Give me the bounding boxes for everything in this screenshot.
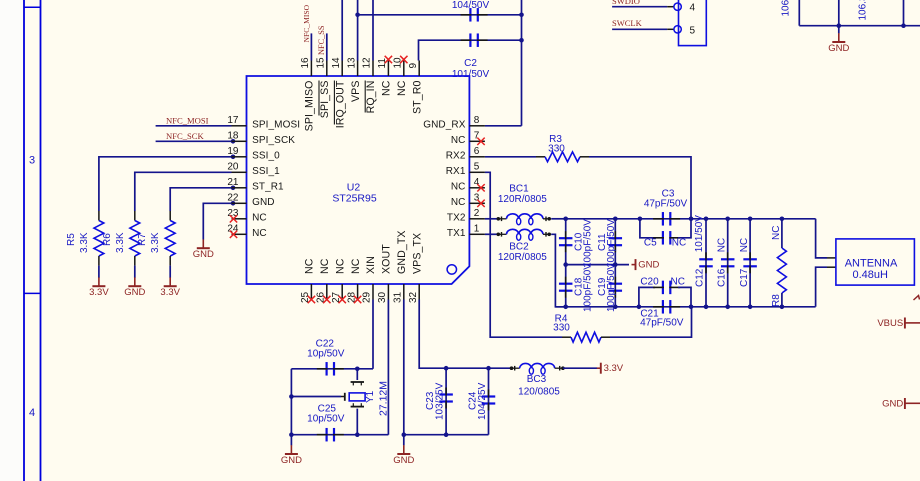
svg-text:NC: NC <box>252 212 267 223</box>
svg-text:3.3V: 3.3V <box>89 287 109 298</box>
U2 pin 31 (GND_TX) stub <box>403 284 405 300</box>
svg-text:10: 10 <box>393 57 404 69</box>
power GND under pin 31 <box>403 445 405 454</box>
wire pin 6 RX2 to R3 <box>485 156 536 158</box>
svg-text:3.3K: 3.3K <box>79 232 90 253</box>
no-connect X on pin 4 <box>477 184 484 191</box>
svg-text:SWDIO: SWDIO <box>612 0 640 6</box>
wire pin 8 to riser <box>485 125 522 127</box>
connector box P? (SWD) <box>679 0 707 46</box>
U2 pin 9 (ST_R0) stub <box>418 61 420 77</box>
svg-text:18: 18 <box>227 131 239 142</box>
U2 pin 2 (TX2) stub <box>469 218 485 220</box>
U2 pin 7 (NC) stub <box>469 140 485 142</box>
svg-text:GND_RX: GND_RX <box>423 119 466 130</box>
wire R4 to matching node <box>601 336 610 338</box>
ferrite bead BC2 <box>497 233 501 237</box>
svg-text:21: 21 <box>227 177 239 188</box>
svg-text:NC: NC <box>451 135 466 146</box>
svg-text:330: 330 <box>553 323 570 334</box>
junction crystal top node <box>355 367 360 372</box>
U2 pin 11 (NC) stub <box>387 61 389 77</box>
no-connect X on pin 24 <box>230 231 237 238</box>
U2 pin 3 (NC) stub <box>469 202 485 204</box>
svg-text:8: 8 <box>474 115 480 126</box>
capacitor C12 <box>705 219 707 307</box>
svg-text:C5: C5 <box>644 238 657 249</box>
svg-text:SWCLK: SWCLK <box>612 18 643 28</box>
wire pin 20 to R6 <box>135 172 232 211</box>
junction C23 top <box>444 366 449 371</box>
U2 pin 25 (NC) stub <box>310 284 312 300</box>
svg-text:22: 22 <box>227 193 239 204</box>
svg-text:47pF/50V: 47pF/50V <box>644 199 688 210</box>
svg-text:NC: NC <box>304 258 316 274</box>
wire bottom rail to antenna pin <box>816 267 827 307</box>
junction C11 middle <box>613 262 618 267</box>
resistor R7 <box>165 221 175 257</box>
left rail of crystal circuit <box>290 369 292 446</box>
junction C2 riser <box>519 38 524 43</box>
U2 pin 28 (NC) stub <box>357 284 359 300</box>
svg-text:NC: NC <box>670 277 684 288</box>
wire NFC_SCK to pin 18 <box>156 140 232 142</box>
svg-text:GND: GND <box>124 287 145 298</box>
capacitor lead from above left (value 106) <box>798 0 800 26</box>
capacitor C19 <box>614 265 616 307</box>
capacitor C17 (not fitted) <box>749 219 751 307</box>
wire pin13 junction to C1 to GND_RX riser <box>358 14 522 16</box>
wire pin 29 XIN down <box>372 300 374 369</box>
U2 pin 19 (SSI_0) stub <box>232 156 247 158</box>
wire XOUT bottom row <box>291 434 388 436</box>
svg-text:10p/50V: 10p/50V <box>307 414 345 425</box>
svg-text:RQ_IN: RQ_IN <box>365 81 377 114</box>
decoupling rail wire <box>799 25 920 27</box>
svg-text:NC: NC <box>334 258 346 274</box>
power 3.3V under R7 <box>169 277 171 286</box>
no-connect X on pin 27 <box>339 296 346 303</box>
wire BC2 down to TX1 rail <box>551 234 566 306</box>
TX2 top rail <box>566 218 816 220</box>
U2 pin 30 (XOUT) stub <box>387 284 389 300</box>
svg-text:NC: NC <box>319 258 331 274</box>
wire pin 16 stub up <box>310 33 312 60</box>
svg-text:NC: NC <box>350 258 362 274</box>
junction pin 22 wire end <box>231 201 236 206</box>
junction C1 riser <box>519 13 524 18</box>
svg-text:NC: NC <box>252 228 267 239</box>
wire SWCLK <box>612 28 667 30</box>
U2 pin 22 (GND) stub <box>232 202 247 204</box>
junction C3 left node <box>638 217 643 222</box>
junction pin13 / C1 wire <box>355 13 360 18</box>
wire BC3 to 3.3V <box>563 367 597 369</box>
cropped red mark near antenna <box>914 296 920 301</box>
svg-text:19: 19 <box>227 146 239 157</box>
svg-text:SPI_MOSI: SPI_MOSI <box>252 119 300 130</box>
connector pin 4 circle <box>674 3 681 10</box>
svg-text:NFC_MISO: NFC_MISO <box>302 4 311 42</box>
svg-text:SSI_0: SSI_0 <box>252 150 280 161</box>
junction crystal bottom node <box>355 432 360 437</box>
svg-text:GND: GND <box>281 455 302 466</box>
wire R7 bottom <box>169 256 171 266</box>
svg-text:VPS_TX: VPS_TX <box>411 233 423 274</box>
svg-text:GND: GND <box>393 455 414 466</box>
svg-text:5: 5 <box>690 25 696 36</box>
no-connect X on pin 10 <box>400 56 407 63</box>
capacitor C25 <box>326 428 328 442</box>
junction decoupling rail right <box>901 23 906 28</box>
svg-text:C17: C17 <box>739 268 750 287</box>
svg-text:ST_R1: ST_R1 <box>252 181 284 192</box>
wire SWDIO <box>612 6 667 8</box>
svg-text:106.3V: 106.3V <box>858 0 869 21</box>
U2 pin 13 (VPS) stub <box>357 61 359 77</box>
capacitor C11 <box>614 219 616 265</box>
U2 pin 26 (NC) stub <box>326 284 328 300</box>
svg-text:10p/50V: 10p/50V <box>307 349 345 360</box>
no-connect X on pin 3 <box>477 200 484 207</box>
power GND under crystal rail <box>290 445 292 454</box>
svg-text:C20: C20 <box>640 277 659 288</box>
svg-text:NC: NC <box>396 80 408 96</box>
U2 pin 27 (NC) stub <box>341 284 343 300</box>
svg-text:2: 2 <box>474 208 480 219</box>
junction C24 top <box>486 366 491 371</box>
svg-text:ST25R95: ST25R95 <box>332 193 377 205</box>
U2 pin 16 (SPI_MISO) stub <box>310 61 312 77</box>
svg-text:120R/0805: 120R/0805 <box>498 252 547 263</box>
svg-text:32: 32 <box>408 291 419 303</box>
overline for pin name RQ_IN <box>364 81 366 113</box>
junction pin 18 wire end <box>231 139 236 144</box>
svg-text:NC: NC <box>381 80 393 96</box>
svg-text:GND: GND <box>252 197 275 208</box>
svg-text:NC: NC <box>739 238 750 252</box>
svg-text:103/25V: 103/25V <box>435 382 446 420</box>
no-connect X on pin 11 <box>385 56 392 63</box>
svg-text:104/50V: 104/50V <box>452 0 490 11</box>
U2 pin 4 (NC) stub <box>469 187 485 189</box>
wire pin 19 to R5 <box>99 157 232 211</box>
U2 pin-1 indicator circle <box>447 265 456 274</box>
capacitor C18 <box>565 265 567 307</box>
junction crystal case lead at left rail <box>289 394 294 399</box>
svg-text:XOUT: XOUT <box>381 244 393 274</box>
svg-text:120R/0805: 120R/0805 <box>498 194 547 205</box>
U2 pin 5 (RX1) stub <box>469 171 485 173</box>
svg-text:BC3: BC3 <box>527 374 547 385</box>
junction pin 19 wire end <box>231 155 236 160</box>
junction C10 middle <box>563 262 568 267</box>
svg-text:100pF/50V: 100pF/50V <box>583 263 594 312</box>
capacitor C23 <box>445 368 447 435</box>
junction decoupling rail at GND tap <box>837 23 842 28</box>
svg-text:20: 20 <box>227 162 239 173</box>
svg-text:C2: C2 <box>464 58 477 69</box>
power GND under pin 22 <box>202 239 204 248</box>
capacitor C20 loop (not fitted) <box>639 287 655 306</box>
svg-text:SPI_SCK: SPI_SCK <box>252 135 295 146</box>
capacitor C24 <box>488 368 490 435</box>
svg-text:R6: R6 <box>102 233 113 246</box>
svg-text:NC: NC <box>451 181 466 192</box>
sheet border left inner line <box>40 0 42 481</box>
svg-text:GND: GND <box>882 399 903 410</box>
svg-text:106/6.3V: 106/6.3V <box>781 0 792 17</box>
TX1 bottom rail <box>555 306 815 308</box>
svg-text:R7: R7 <box>137 233 148 246</box>
junction left rail bottom <box>289 432 294 437</box>
svg-text:NC: NC <box>717 238 728 252</box>
wire pin 12 up to sheet edge <box>372 0 374 61</box>
U2 pin 12 (RQ_IN) stub <box>372 61 374 77</box>
svg-text:GND: GND <box>638 259 659 270</box>
U2 pin 10 (NC) stub <box>403 61 405 77</box>
svg-text:12: 12 <box>362 57 373 69</box>
overline for pin name IRQ_OUT <box>333 81 335 125</box>
svg-text:47pF/50V: 47pF/50V <box>640 318 684 329</box>
junction C18 bottom <box>563 305 568 310</box>
svg-text:16: 16 <box>300 57 311 69</box>
capacitor C5 loop (not fitted) <box>640 219 655 238</box>
svg-text:13: 13 <box>346 57 357 69</box>
overline for pin name SPI_SS <box>318 81 320 116</box>
U2 pin 1 (TX1) stub <box>469 233 485 235</box>
junction pin31 and C23/C24 return rail <box>402 432 407 437</box>
power GND on middle rail <box>632 264 636 266</box>
U2 pin 8 (GND_RX) stub <box>469 125 485 127</box>
junction C21 left node <box>637 305 642 310</box>
svg-text:SSI_1: SSI_1 <box>252 166 280 177</box>
svg-text:BC2: BC2 <box>509 242 529 253</box>
resistor R5 <box>94 221 104 257</box>
IC U2 ST25R95 body <box>247 76 470 284</box>
no-connect X on pin 7 <box>477 138 484 145</box>
capacitor C21 in bottom rail <box>662 300 664 314</box>
svg-text:RX2: RX2 <box>446 150 466 161</box>
capacitor C1 <box>469 8 471 21</box>
svg-text:11: 11 <box>377 58 388 69</box>
svg-text:4: 4 <box>29 407 35 419</box>
svg-text:NFC_MOSI: NFC_MOSI <box>166 115 209 125</box>
wire R6 bottom <box>134 256 136 266</box>
capacitor C16 (not fitted) <box>727 219 729 307</box>
svg-text:GND_TX: GND_TX <box>396 230 408 274</box>
svg-text:NC: NC <box>672 238 686 249</box>
svg-text:330: 330 <box>548 144 565 155</box>
junction C3/C5 right node <box>689 217 694 222</box>
svg-text:ST_R0: ST_R0 <box>411 81 423 114</box>
svg-text:3.3K: 3.3K <box>115 232 126 253</box>
wire GND_RX riser pin 8 <box>521 0 523 126</box>
resistor R3 <box>545 152 580 162</box>
U2 pin 14 (IRQ_OUT) stub <box>341 61 343 77</box>
svg-text:104/25V: 104/25V <box>477 382 488 420</box>
sheet margin outside border <box>0 0 24 481</box>
wire pin 15 stub up <box>326 33 328 60</box>
svg-text:NC: NC <box>771 226 782 240</box>
svg-text:6: 6 <box>474 146 480 157</box>
svg-text:3.3V: 3.3V <box>604 363 624 374</box>
junction C11 top <box>613 217 618 222</box>
sheet border zone tick middle <box>24 292 41 294</box>
U2 pin 18 (SPI_SCK) stub <box>232 140 247 142</box>
svg-text:4: 4 <box>690 3 696 14</box>
wire pin 21 to R7 <box>170 188 231 211</box>
junction C10 top <box>563 217 568 222</box>
power 3.3V at BC3 output <box>597 367 601 369</box>
antenna box ANTENNA 0.48uH <box>836 239 915 285</box>
no-connect X on pin 23 <box>230 215 237 222</box>
svg-text:3: 3 <box>29 155 35 167</box>
U2 pin 21 (ST_R1) stub <box>232 187 247 189</box>
svg-text:30: 30 <box>377 291 388 303</box>
wire pin 14 up to sheet edge <box>341 0 343 61</box>
wire pin 32 VPS_TX down and right <box>419 300 510 369</box>
wire BC1 to TX2 rail <box>551 218 566 220</box>
crystal Y1 27.12M <box>356 369 358 380</box>
wire pin 30 XOUT down <box>387 300 389 435</box>
svg-text:9: 9 <box>408 63 419 69</box>
svg-text:NFC_SS: NFC_SS <box>317 25 326 55</box>
svg-text:101/50V: 101/50V <box>452 69 490 80</box>
svg-text:C12: C12 <box>694 268 705 287</box>
wire R3 to matching node <box>580 156 589 158</box>
svg-text:3.3K: 3.3K <box>150 232 161 253</box>
no-connect X on pin 28 <box>354 296 361 303</box>
svg-text:120/0805: 120/0805 <box>518 387 560 398</box>
wire XIN row to crystal and C22 <box>291 368 373 370</box>
U2 pin 20 (SSI_1) stub <box>232 171 247 173</box>
ground symbol on decoupling rail <box>838 26 840 34</box>
U2 pin 29 (XIN) stub <box>372 284 374 300</box>
wire pin 1 TX1 to BC2 <box>485 233 498 235</box>
svg-text:U2: U2 <box>347 181 361 193</box>
svg-text:XIN: XIN <box>365 256 377 274</box>
wire pin 2 TX2 to BC1 <box>485 218 498 220</box>
resistor R6 <box>130 221 140 257</box>
no-connect X on pin 25 <box>308 296 315 303</box>
junction C23 bottom <box>444 432 449 437</box>
svg-text:VBUS: VBUS <box>877 318 903 329</box>
ferrite bead BC1 <box>497 217 501 221</box>
sheet border left outer line <box>23 0 25 481</box>
svg-text:14: 14 <box>331 57 342 69</box>
svg-text:SPI_SS: SPI_SS <box>319 81 331 119</box>
svg-text:NFC_SCK: NFC_SCK <box>166 131 205 141</box>
svg-text:NC: NC <box>451 197 466 208</box>
svg-text:29: 29 <box>362 291 373 303</box>
svg-text:IRQ_OUT: IRQ_OUT <box>334 80 346 128</box>
no-connect X on pin 26 <box>323 296 330 303</box>
capacitor C2 <box>469 33 471 47</box>
U2 pin 15 (SPI_SS) stub <box>326 61 328 77</box>
middle ground rail <box>566 264 629 266</box>
capacitor lead from above right (value 106) <box>838 0 840 26</box>
junction C20/C21 right node <box>689 305 694 310</box>
svg-text:0.48uH: 0.48uH <box>852 269 888 281</box>
svg-text:TX2: TX2 <box>447 212 466 223</box>
svg-text:15: 15 <box>316 57 327 69</box>
wire pin 9 up and right to C2 <box>419 40 522 60</box>
wire pin 5 RX1 down <box>485 172 562 337</box>
capacitor C3 in top rail <box>662 212 664 226</box>
resistor R4 <box>571 332 601 342</box>
power GND under R6 <box>134 277 136 286</box>
svg-text:TX1: TX1 <box>447 228 466 239</box>
svg-text:5: 5 <box>474 162 480 173</box>
wire pin 31 GND_TX down <box>403 300 405 446</box>
U2 pin 6 (RX2) stub <box>469 156 485 158</box>
wire NFC_MOSI to pin 17 <box>156 125 232 127</box>
power 3.3V under R5 <box>98 277 100 286</box>
resistor R8 (not fitted) <box>781 219 783 248</box>
U2 pin 32 (VPS_TX) stub <box>418 284 420 300</box>
junction pin 21 wire end <box>231 186 236 191</box>
svg-text:ANTENNA: ANTENNA <box>845 258 898 270</box>
capacitor C10 <box>565 219 567 265</box>
U2 pin 23 (NC) stub <box>232 218 247 220</box>
svg-text:SPI_MISO: SPI_MISO <box>304 81 316 132</box>
svg-text:R8: R8 <box>771 294 782 307</box>
svg-text:31: 31 <box>393 291 404 303</box>
capacitor lead 106 right column <box>903 0 905 26</box>
ferrite bead BC3 <box>510 366 514 370</box>
svg-text:Y1: Y1 <box>365 390 376 403</box>
svg-text:GND: GND <box>828 43 849 54</box>
svg-text:VPS: VPS <box>350 81 362 103</box>
sheet border zone tick top <box>24 6 41 8</box>
junction C19 bottom <box>613 305 618 310</box>
U2 pin 17 (SPI_MOSI) stub <box>232 125 247 127</box>
svg-text:101/50V: 101/50V <box>694 215 705 253</box>
svg-text:RX1: RX1 <box>446 166 466 177</box>
crystal case lead <box>291 396 341 398</box>
wire pin 22 to ground <box>203 203 231 239</box>
svg-text:1: 1 <box>474 224 480 235</box>
connector pin 5 circle <box>674 26 681 33</box>
U2 pin 24 (NC) stub <box>232 233 247 235</box>
wire top rail to antenna pin <box>816 219 827 258</box>
C23/C24 bottom return rail <box>404 434 489 436</box>
svg-text:C16: C16 <box>717 268 728 287</box>
wire R5 bottom <box>98 256 100 266</box>
svg-text:100pF/50V: 100pF/50V <box>583 219 594 268</box>
svg-text:R5: R5 <box>66 233 77 246</box>
svg-text:17: 17 <box>227 115 239 126</box>
svg-text:GND: GND <box>193 249 214 260</box>
svg-text:100pF/50V: 100pF/50V <box>606 219 617 268</box>
svg-text:3.3V: 3.3V <box>160 287 180 298</box>
capacitor C22 <box>326 362 328 376</box>
wire pin 13 up to sheet edge <box>357 0 359 61</box>
